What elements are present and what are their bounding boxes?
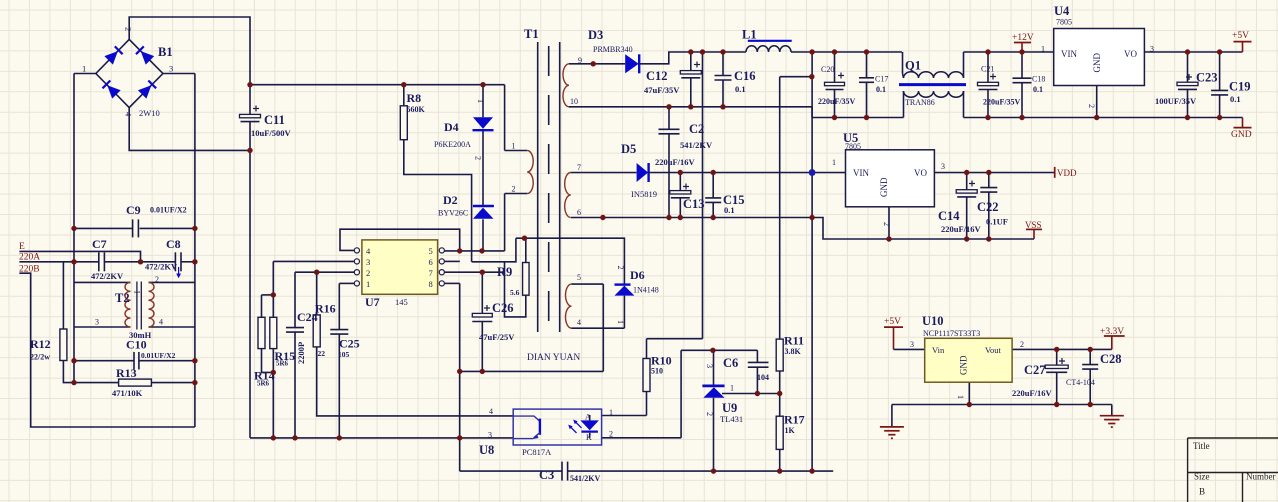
svg-text:C3: C3 xyxy=(539,468,554,482)
svg-text:2: 2 xyxy=(1020,340,1024,349)
svg-text:Q1: Q1 xyxy=(905,59,921,73)
svg-text:C10: C10 xyxy=(126,338,147,352)
svg-text:C2: C2 xyxy=(689,122,704,136)
svg-text:+12V: +12V xyxy=(1012,33,1034,43)
svg-text:R8: R8 xyxy=(407,91,422,105)
svg-text:Size: Size xyxy=(1194,472,1210,482)
svg-text:C9: C9 xyxy=(126,203,141,217)
svg-text:BYV26C: BYV26C xyxy=(438,209,468,218)
svg-text:1: 1 xyxy=(832,158,836,167)
svg-text:VSS: VSS xyxy=(1025,220,1042,230)
svg-text:4: 4 xyxy=(489,407,493,416)
svg-text:VO: VO xyxy=(914,168,927,178)
svg-text:C12: C12 xyxy=(646,69,668,83)
svg-text:Vin: Vin xyxy=(932,345,945,355)
svg-text:GND: GND xyxy=(879,177,889,197)
svg-text:541/2KV: 541/2KV xyxy=(680,140,713,150)
svg-text:472/2KV: 472/2KV xyxy=(91,271,124,281)
svg-text:2: 2 xyxy=(882,222,891,226)
svg-text:100UF/35V: 100UF/35V xyxy=(1155,96,1197,106)
svg-text:GND: GND xyxy=(1092,53,1102,73)
svg-text:10uF/500V: 10uF/500V xyxy=(251,128,292,138)
svg-text:Title: Title xyxy=(1193,441,1210,451)
svg-text:0.01UF/X2: 0.01UF/X2 xyxy=(150,206,187,215)
svg-text:5R6: 5R6 xyxy=(276,360,289,368)
svg-text:220uF/16V: 220uF/16V xyxy=(1012,388,1053,398)
svg-text:3: 3 xyxy=(488,431,492,440)
svg-text:PRMBR340: PRMBR340 xyxy=(593,45,633,54)
svg-text:1: 1 xyxy=(476,99,485,103)
svg-text:0.01UF/X2: 0.01UF/X2 xyxy=(141,351,176,360)
svg-text:2W10: 2W10 xyxy=(139,108,160,118)
svg-text:1: 1 xyxy=(609,408,613,417)
svg-text:D4: D4 xyxy=(444,120,459,134)
svg-text:TL431: TL431 xyxy=(720,414,743,424)
svg-text:2: 2 xyxy=(474,156,483,160)
svg-text:+5V: +5V xyxy=(1232,31,1249,41)
svg-text:C17: C17 xyxy=(875,75,888,84)
svg-text:5: 5 xyxy=(429,246,433,256)
svg-text:220B: 220B xyxy=(19,265,40,275)
svg-text:U7: U7 xyxy=(365,295,380,309)
svg-text:2: 2 xyxy=(155,275,159,284)
svg-text:471/10K: 471/10K xyxy=(112,388,143,398)
svg-text:3: 3 xyxy=(169,64,173,74)
svg-text:VO: VO xyxy=(1124,49,1137,59)
svg-text:C6: C6 xyxy=(723,356,738,370)
svg-text:541/2KV: 541/2KV xyxy=(570,474,600,483)
svg-text:C13: C13 xyxy=(683,197,705,211)
svg-text:0.1: 0.1 xyxy=(876,85,886,94)
svg-text:220A: 220A xyxy=(19,253,40,263)
svg-text:C28: C28 xyxy=(1100,352,1122,366)
svg-text:8: 8 xyxy=(429,279,433,289)
svg-text:R10: R10 xyxy=(651,354,672,368)
svg-text:2: 2 xyxy=(512,185,516,194)
svg-text:1: 1 xyxy=(616,320,625,324)
svg-text:R17: R17 xyxy=(784,413,805,427)
svg-text:7: 7 xyxy=(577,163,581,172)
svg-text:C21: C21 xyxy=(981,65,994,74)
svg-text:2: 2 xyxy=(1087,104,1096,108)
svg-text:6: 6 xyxy=(577,208,581,217)
svg-text:4: 4 xyxy=(159,318,163,327)
svg-text:1: 1 xyxy=(82,64,86,74)
svg-text:T1: T1 xyxy=(524,27,539,41)
svg-text:P6KE200A: P6KE200A xyxy=(434,140,471,149)
svg-text:105: 105 xyxy=(338,350,350,359)
svg-text:5.6: 5.6 xyxy=(510,288,520,297)
svg-text:R13: R13 xyxy=(116,366,137,380)
svg-text:DIAN YUAN: DIAN YUAN xyxy=(527,353,580,363)
svg-text:47uF/35V: 47uF/35V xyxy=(644,85,680,95)
svg-text:GND: GND xyxy=(959,355,969,375)
svg-text:C8: C8 xyxy=(166,237,181,251)
svg-text:220uF/16V: 220uF/16V xyxy=(655,157,696,167)
svg-text:3: 3 xyxy=(705,364,714,368)
svg-text:3: 3 xyxy=(1150,45,1154,54)
svg-text:7: 7 xyxy=(429,268,433,278)
svg-text:C19: C19 xyxy=(1229,80,1251,94)
svg-text:B: B xyxy=(1199,487,1205,497)
svg-text:U8: U8 xyxy=(479,443,494,457)
svg-text:0.1: 0.1 xyxy=(1230,94,1241,104)
svg-text:R9: R9 xyxy=(497,265,512,279)
svg-text:510: 510 xyxy=(651,367,663,376)
svg-text:1N4148: 1N4148 xyxy=(633,286,659,295)
svg-text:1: 1 xyxy=(366,279,370,289)
svg-text:220uF/35V: 220uF/35V xyxy=(983,98,1021,107)
svg-text:C26: C26 xyxy=(492,301,514,315)
svg-text:472/2KV: 472/2KV xyxy=(145,262,178,272)
svg-text:A: A xyxy=(585,413,591,422)
svg-text:0.1: 0.1 xyxy=(1033,85,1043,94)
svg-text:C16: C16 xyxy=(734,69,756,83)
svg-text:1: 1 xyxy=(133,290,142,294)
svg-text:D5: D5 xyxy=(621,142,636,156)
svg-text:3.8K: 3.8K xyxy=(785,347,802,356)
svg-text:47uF/25V: 47uF/25V xyxy=(479,332,515,342)
svg-text:560K: 560K xyxy=(407,105,426,114)
svg-text:K: K xyxy=(586,433,592,442)
svg-text:C20: C20 xyxy=(821,65,834,74)
svg-text:D2: D2 xyxy=(443,193,458,207)
svg-text:7805: 7805 xyxy=(1056,18,1072,27)
svg-text:5: 5 xyxy=(577,273,581,282)
svg-text:0.1: 0.1 xyxy=(724,205,735,215)
svg-text:C25: C25 xyxy=(339,337,360,351)
svg-text:VIN: VIN xyxy=(853,168,869,178)
svg-text:3: 3 xyxy=(910,340,914,349)
svg-text:U10: U10 xyxy=(922,314,944,328)
svg-text:7805: 7805 xyxy=(845,142,861,151)
svg-text:104: 104 xyxy=(757,373,769,382)
svg-text:C7: C7 xyxy=(92,237,107,251)
svg-text:2: 2 xyxy=(366,268,370,278)
svg-text:Vout: Vout xyxy=(985,345,1002,355)
svg-text:3: 3 xyxy=(941,162,945,171)
svg-text:2: 2 xyxy=(609,430,613,439)
svg-text:3: 3 xyxy=(95,318,99,327)
svg-text:22: 22 xyxy=(318,349,326,358)
svg-text:1: 1 xyxy=(956,395,965,399)
svg-text:R11: R11 xyxy=(784,334,804,348)
svg-text:4: 4 xyxy=(577,318,581,327)
svg-text:145: 145 xyxy=(395,297,408,307)
svg-text:9: 9 xyxy=(578,56,582,65)
svg-text:5R6: 5R6 xyxy=(257,380,270,388)
svg-text:6: 6 xyxy=(429,257,433,267)
svg-text:E: E xyxy=(19,242,25,252)
svg-text:0.1: 0.1 xyxy=(735,84,746,94)
svg-text:Number: Number xyxy=(1246,472,1276,482)
svg-text:+5V: +5V xyxy=(884,317,901,327)
svg-text:1: 1 xyxy=(730,384,734,393)
svg-text:VDD: VDD xyxy=(1057,168,1077,178)
svg-text:C18: C18 xyxy=(1032,75,1045,84)
svg-text:1: 1 xyxy=(512,142,516,151)
svg-text:2: 2 xyxy=(705,412,714,416)
svg-text:220uF/16V: 220uF/16V xyxy=(941,224,982,234)
svg-text:R16: R16 xyxy=(315,302,336,316)
svg-text:1: 1 xyxy=(1041,45,1045,54)
svg-text:2: 2 xyxy=(616,266,625,270)
svg-text:D3: D3 xyxy=(588,28,603,42)
svg-text:VIN: VIN xyxy=(1061,49,1077,59)
svg-text:CT4-104: CT4-104 xyxy=(1066,378,1095,387)
svg-text:T2: T2 xyxy=(115,291,130,305)
svg-text:TRAN86: TRAN86 xyxy=(905,98,935,107)
svg-text:2200P: 2200P xyxy=(296,342,306,364)
svg-text:22/2w: 22/2w xyxy=(30,353,50,362)
svg-text:1K: 1K xyxy=(785,426,796,435)
svg-text:2: 2 xyxy=(124,27,134,31)
svg-text:GND: GND xyxy=(1231,130,1252,140)
svg-text:R12: R12 xyxy=(30,337,51,351)
svg-text:220uF/35V: 220uF/35V xyxy=(818,97,856,106)
svg-text:C11: C11 xyxy=(264,113,285,127)
svg-text:C22: C22 xyxy=(977,200,999,214)
svg-text:3: 3 xyxy=(366,257,370,267)
svg-text:U9: U9 xyxy=(722,401,737,415)
svg-text:C23: C23 xyxy=(1196,71,1218,85)
svg-text:U4: U4 xyxy=(1054,4,1070,18)
svg-text:PC817A: PC817A xyxy=(522,447,552,457)
svg-text:C27: C27 xyxy=(1024,363,1046,377)
svg-text:NCP1117ST33T3: NCP1117ST33T3 xyxy=(923,329,980,338)
svg-text:B1: B1 xyxy=(158,45,173,59)
svg-text:D6: D6 xyxy=(630,268,645,282)
svg-text:+3.3V: +3.3V xyxy=(1100,327,1124,337)
svg-text:10: 10 xyxy=(570,97,578,106)
svg-text:0.1UF: 0.1UF xyxy=(986,217,1008,227)
svg-text:L1: L1 xyxy=(742,28,757,42)
svg-text:C14: C14 xyxy=(938,209,960,223)
svg-text:IN5819: IN5819 xyxy=(631,189,657,199)
